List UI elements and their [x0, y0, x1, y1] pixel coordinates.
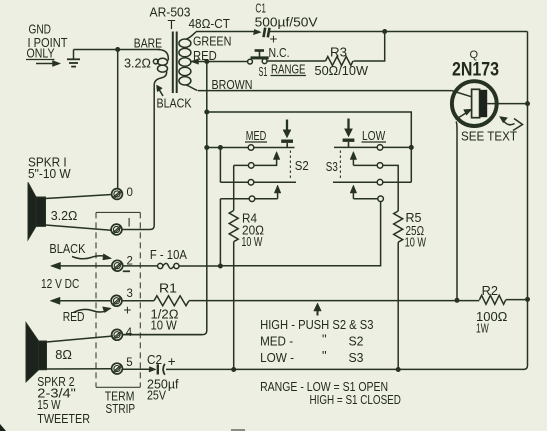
wire C2 row to right rail [166, 368, 524, 370]
transformer tap circle 3.2ohm [153, 59, 158, 64]
svg-text:S3: S3 [349, 351, 364, 365]
svg-text:ONLY: ONLY [27, 47, 56, 61]
svg-text:SEE TEXT: SEE TEXT [461, 130, 517, 144]
black wire curved arrow to terminal 2 [72, 254, 112, 260]
switch S1 pushbutton N.C. [248, 51, 269, 64]
node junction S2 row1 to row3 link [218, 145, 223, 150]
svg-text:5"-10 W: 5"-10 W [28, 167, 71, 181]
resistor R1 [154, 296, 189, 306]
svg-text:12 V DC: 12 V DC [41, 277, 79, 291]
speaker SPKR1 [28, 182, 46, 239]
switch S2 row4 moving contact with arrow [220, 185, 281, 202]
svg-text:T: T [168, 17, 176, 32]
svg-text:MED -: MED - [260, 335, 293, 349]
node junction S3 row1 [409, 145, 414, 150]
wire R4 bottom lead down to C2 row [233, 242, 235, 370]
node junction R4 bottom [231, 367, 236, 372]
high push annotation arrow [314, 303, 322, 316]
node junction emitter row [455, 298, 460, 303]
wire speaker2 leads [47, 336, 114, 369]
svg-text:RED: RED [193, 49, 217, 63]
wire 12VDC negative lead with arrow [51, 262, 112, 269]
red tap arrowhead [191, 59, 199, 65]
svg-text:MED: MED [246, 129, 266, 143]
svg-text:15 W: 15 W [37, 398, 60, 412]
svg-text:C2: C2 [147, 353, 162, 367]
node junction bus to S3 feed [204, 110, 209, 115]
node junction bus to S2 row1 [204, 145, 209, 150]
terminal strip box [96, 212, 140, 387]
switch S2 row2 moving contact with arrow [234, 152, 280, 169]
terminal 4 [112, 329, 123, 340]
switch S3 row1 fixed contact [334, 146, 411, 148]
node junction R2 right rail [525, 297, 530, 302]
speaker SPKR2 [26, 323, 47, 382]
black lead pointer arrow [157, 85, 164, 96]
wire top rail green lead [196, 31, 260, 33]
wire S2 row4 down to negative rail [219, 199, 221, 266]
svg-text:RED: RED [63, 310, 85, 324]
transistor Q1 2N173 [452, 81, 528, 300]
svg-text:10 W: 10 W [241, 235, 262, 249]
svg-text:10 W: 10 W [405, 235, 427, 249]
svg-text:S3: S3 [326, 160, 338, 174]
svg-text:2N173: 2N173 [452, 60, 499, 81]
svg-text:LOW -: LOW - [260, 351, 294, 365]
svg-text:5: 5 [126, 357, 132, 369]
svg-text:S1: S1 [259, 65, 268, 79]
wire S3 row4 down to negative rail corner [220, 202, 380, 266]
wire ground rail [74, 49, 161, 51]
svg-text:+: + [168, 354, 176, 369]
wire R3 branch [354, 32, 385, 62]
terminal 5 [112, 363, 123, 374]
svg-text:8Ω: 8Ω [55, 348, 72, 362]
terminal 1 [111, 224, 122, 235]
svg-text:48Ω-CT: 48Ω-CT [189, 17, 231, 31]
switch S3 row2 moving contact with arrow [350, 152, 398, 212]
node junction collector right rail [525, 101, 530, 106]
wire terminal4 row [123, 334, 203, 336]
svg-text:N.C.: N.C. [269, 46, 290, 60]
wire red center tap to S1 [191, 61, 248, 63]
svg-text:GREEN: GREEN [193, 35, 231, 49]
wire black lead to terminal 1 [123, 88, 155, 230]
svg-text:HIGH - PUSH S2 & S3: HIGH - PUSH S2 & S3 [260, 318, 373, 332]
wire R1 to R2 main row [189, 300, 479, 302]
svg-text:500µf/50V: 500µf/50V [255, 16, 319, 30]
svg-text:10 W: 10 W [151, 319, 177, 333]
transformer T primary winding [154, 50, 168, 91]
svg-text:I: I [128, 218, 131, 230]
svg-text:S2: S2 [295, 159, 309, 173]
svg-text:TWEETER: TWEETER [37, 412, 90, 426]
svg-text:RANGE: RANGE [271, 63, 306, 77]
label LOW underline [362, 141, 387, 143]
svg-text:3.2Ω: 3.2Ω [51, 209, 78, 223]
wire speaker1 leads [46, 195, 113, 231]
terminal 3 [111, 295, 122, 306]
stray mark bottom center [231, 429, 245, 431]
wire R2 to right rail [506, 299, 528, 301]
resistor R4 [229, 211, 238, 242]
fuse F-10A [158, 263, 179, 268]
wire S1 to R3 [267, 60, 326, 62]
svg-text:25V: 25V [147, 388, 167, 402]
wire terminal3 to R1 [122, 300, 154, 302]
resistor R5 [394, 211, 403, 242]
svg-text:C1: C1 [255, 2, 266, 16]
see text curved arrow [500, 117, 523, 131]
svg-text:": " [322, 348, 327, 363]
wire top rail after C1 [270, 31, 528, 33]
capacitor C2 [149, 364, 165, 375]
gnd label arrow [36, 61, 61, 67]
wire R4 top lead from S2 row2 [233, 165, 235, 210]
wire main vertical bus from red tap down to terminal 4 row [123, 62, 207, 335]
svg-text:LOW: LOW [362, 129, 385, 143]
wire negative rail fuse row [123, 265, 220, 267]
svg-text:S2: S2 [349, 335, 364, 349]
svg-text:1W: 1W [476, 322, 489, 336]
label MED underline [245, 141, 267, 143]
svg-text:F - 10A: F - 10A [150, 248, 188, 262]
terminal 0 [112, 189, 123, 200]
resistor R2 [479, 295, 505, 304]
stray mark bottom left corner [0, 424, 6, 431]
wire R5 bottom lead down to C2 row [397, 242, 399, 369]
switch S2 row1 fixed contact [207, 147, 295, 149]
resistor R3 [326, 57, 354, 66]
svg-text:R1: R1 [159, 282, 177, 296]
svg-text:4: 4 [126, 327, 133, 339]
transformer T secondary winding [179, 32, 198, 91]
svg-text:50Ω/10W: 50Ω/10W [315, 64, 369, 78]
node junction negative rail [218, 264, 223, 269]
node junction top rail / R3 branch [382, 29, 387, 34]
svg-text:R3: R3 [330, 46, 347, 60]
svg-text:3.2Ω: 3.2Ω [124, 57, 151, 71]
svg-text:BROWN: BROWN [212, 78, 253, 92]
red wire curved arrow to terminal 3 [74, 307, 112, 313]
wire brown lead to transistor base [198, 90, 452, 92]
svg-text:2: 2 [127, 256, 133, 268]
switch S3 row3 fixed contact [333, 181, 411, 183]
wire terminal5 to C2 [123, 368, 153, 370]
switch S3 pushbutton actuator [340, 119, 354, 179]
node junction red tap [204, 59, 209, 64]
switch S2 row3 fixed contact [220, 181, 296, 183]
wire right rail [524, 32, 528, 370]
capacitor C1 [254, 28, 270, 38]
svg-text:BLACK: BLACK [157, 97, 193, 111]
svg-text:": " [322, 332, 327, 347]
wire terminal0 riser [117, 50, 119, 189]
switch S3 row4 moving contact with arrow [350, 185, 383, 202]
svg-text:+: + [270, 32, 278, 47]
label RANGE underline [271, 75, 307, 77]
svg-text:STRIP: STRIP [106, 402, 136, 416]
switch S2 pushbutton actuator [281, 120, 293, 180]
transformer core [173, 32, 177, 94]
terminal 2 [112, 260, 123, 271]
wire S3 feed line [207, 112, 411, 182]
svg-text:0: 0 [127, 187, 133, 199]
svg-text:3: 3 [127, 288, 133, 300]
wire S2 row1-row3 link [219, 148, 221, 183]
svg-text:R2: R2 [482, 284, 498, 298]
ground [67, 50, 80, 67]
node junction R5 bottom [396, 367, 401, 372]
svg-text:BARE: BARE [134, 37, 162, 51]
svg-text:GND: GND [29, 23, 52, 37]
node junction on ground rail [115, 47, 120, 52]
wire 12VDC positive lead with arrow [50, 297, 110, 304]
terminal 2 minus sign [123, 270, 130, 272]
svg-text:BLACK: BLACK [49, 242, 86, 256]
svg-text:+: + [124, 303, 132, 318]
svg-text:HIGH = S1 CLOSED: HIGH = S1 CLOSED [310, 393, 401, 407]
